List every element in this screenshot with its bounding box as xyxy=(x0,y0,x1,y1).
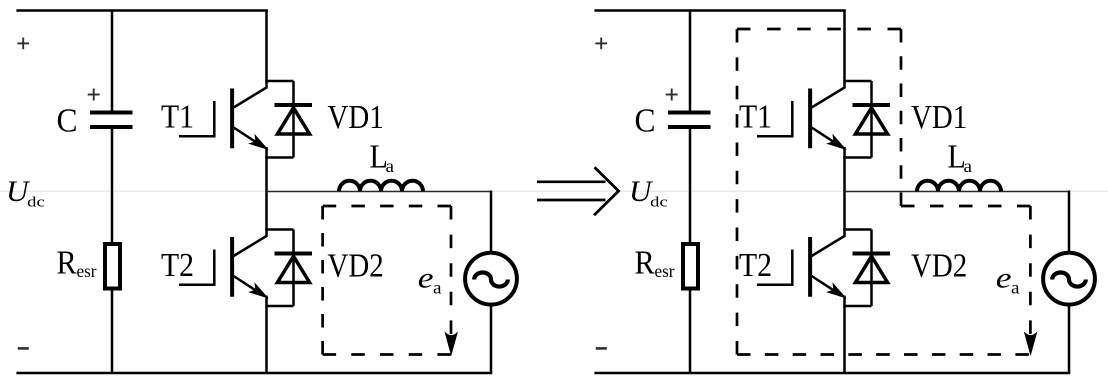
AC source ea (circle) xyxy=(1043,253,1095,305)
wire: collector jog of T1 to VD1 top xyxy=(265,80,293,83)
wire: VD1 branch vertical xyxy=(870,81,873,158)
wire: bridge leg bottom (T2 emitter to rail) xyxy=(843,296,846,374)
svg-text:C: C xyxy=(635,103,656,140)
svg-text:a: a xyxy=(964,156,973,176)
wire: VD2 branch vertical xyxy=(870,230,873,307)
svg-text:dc: dc xyxy=(27,195,45,211)
wire: bridge leg top (T1 collector) xyxy=(843,10,846,89)
svg-text:R: R xyxy=(635,244,655,281)
wire: bottom DC rail (left circuit) xyxy=(16,372,492,375)
wire: top DC rail (right circuit) xyxy=(594,9,845,12)
wire: bridge leg middle (phase node) xyxy=(265,147,268,237)
wire: phase output (thin) to load xyxy=(267,191,492,193)
arrowhead of left current loop xyxy=(446,333,457,354)
transistor T2 (IGBT) xyxy=(179,236,267,297)
wire: load branch upper xyxy=(490,191,493,254)
diode VD2 xyxy=(275,254,313,283)
svg-text:VD1: VD1 xyxy=(911,99,967,136)
wire: capacitor to resistor xyxy=(111,129,114,243)
wire: bridge leg bottom (T2 emitter to rail) xyxy=(265,296,268,374)
wire: phase output (thin) to load xyxy=(845,191,1070,193)
wire: bottom DC rail (right circuit) xyxy=(594,372,1070,375)
wire: emitter jog of T2 from VD2 bottom xyxy=(265,305,293,308)
label + (capacitor polarity) xyxy=(666,89,678,101)
wire: load branch lower xyxy=(1068,304,1071,373)
arrowhead of right current loop xyxy=(1025,333,1036,354)
inductor La xyxy=(917,181,1001,192)
wire: collector jog of T2 to VD2 top xyxy=(843,228,871,231)
svg-text:T2: T2 xyxy=(739,247,772,284)
wire: emitter jog of T1 from VD1 bottom xyxy=(265,156,293,159)
resistor Resr xyxy=(683,244,698,289)
svg-text:a: a xyxy=(1011,278,1020,298)
transistor T2 (IGBT) xyxy=(757,236,845,297)
svg-text:VD2: VD2 xyxy=(328,248,384,285)
wire: capacitor branch upper xyxy=(111,10,114,111)
wire: resistor to bottom rail xyxy=(111,290,114,374)
svg-text:VD1: VD1 xyxy=(328,99,384,136)
wire: emitter jog of T2 from VD2 bottom xyxy=(843,305,871,308)
label + (DC bus positive) xyxy=(17,38,29,50)
transistor T1 (IGBT) xyxy=(757,88,845,149)
wire: collector jog of T2 to VD2 top xyxy=(265,228,293,231)
wire: emitter jog of T1 from VD1 bottom xyxy=(843,156,871,159)
label + (DC bus positive) xyxy=(595,38,607,50)
svg-text:C: C xyxy=(57,103,78,140)
svg-text:VD2: VD2 xyxy=(911,248,967,285)
wire: collector jog of T1 to VD1 top xyxy=(843,80,871,83)
svg-text:T1: T1 xyxy=(161,98,194,135)
svg-text:e: e xyxy=(418,262,434,295)
wire: bridge leg top (T1 collector) xyxy=(265,10,268,89)
svg-text:R: R xyxy=(57,244,77,281)
diode VD1 xyxy=(275,105,313,134)
wire: load branch upper xyxy=(1068,191,1071,254)
svg-text:T1: T1 xyxy=(739,98,772,135)
wire: bridge leg middle (phase node) xyxy=(843,147,846,237)
svg-text:esr: esr xyxy=(77,261,97,281)
inductor La xyxy=(339,181,423,192)
wire: load branch lower xyxy=(490,304,493,373)
wire: capacitor branch upper xyxy=(689,10,692,111)
diode VD1 xyxy=(853,105,891,134)
wire: capacitor to resistor xyxy=(689,129,692,243)
svg-text:a: a xyxy=(386,156,395,176)
svg-text:dc: dc xyxy=(650,195,668,211)
label minus (DC bus negative) xyxy=(596,347,607,350)
svg-text:a: a xyxy=(433,278,442,298)
AC source ea (circle) xyxy=(465,253,517,305)
wire: VD2 branch vertical xyxy=(292,230,295,307)
wire: resistor to bottom rail xyxy=(689,290,692,374)
diode VD2 xyxy=(853,254,891,283)
label minus (DC bus negative) xyxy=(18,347,29,350)
svg-text:T2: T2 xyxy=(161,247,194,284)
faint horizontal scan line xyxy=(0,190,1108,192)
transistor T1 (IGBT) xyxy=(179,88,267,149)
dashed current loop (commutation path through T1/VD1 leg) xyxy=(737,29,1030,355)
label + (capacitor polarity) xyxy=(88,89,100,101)
svg-text:esr: esr xyxy=(655,261,675,281)
wire: top DC rail (left circuit) xyxy=(16,9,267,12)
implication double arrow between circuits xyxy=(537,167,619,215)
svg-text:e: e xyxy=(996,262,1012,295)
resistor Resr xyxy=(105,244,120,289)
capacitor C xyxy=(668,113,711,128)
dashed current loop (freewheel path through VD2) xyxy=(323,206,451,355)
capacitor C xyxy=(90,113,133,128)
wire: VD1 branch vertical xyxy=(292,81,295,158)
